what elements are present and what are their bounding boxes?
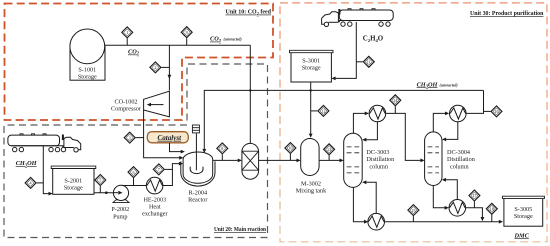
wire: truck to S-3001 xyxy=(336,22,357,78)
svg-text:Unit 30: Product purification: Unit 30: Product purification xyxy=(470,10,544,17)
svg-text:9: 9 xyxy=(186,30,188,35)
wire: truck to S-2001 xyxy=(43,146,48,194)
mixing tank M-3002 xyxy=(296,139,327,195)
unit 10 boundary box xyxy=(5,4,274,121)
diamond 3 xyxy=(124,132,135,143)
svg-text:16: 16 xyxy=(494,109,498,114)
node: junction of S-3001 drop with header xyxy=(310,89,312,91)
svg-text:Distillation: Distillation xyxy=(447,156,475,163)
wire: stub diamond 9 xyxy=(186,38,188,45)
diamond 10 xyxy=(285,143,296,154)
wire: stub diamond 2 xyxy=(161,66,169,68)
svg-text:exchanger: exchanger xyxy=(142,210,167,217)
svg-text:Catalyst: Catalyst xyxy=(157,134,182,142)
diamond 13 xyxy=(324,144,335,155)
diamond 17 xyxy=(469,190,480,201)
node: junction of riser with methanol header xyxy=(249,89,251,91)
wire: S-3001 to mixing tank xyxy=(310,82,312,134)
diamond 11 xyxy=(363,56,374,67)
svg-text:S-2001: S-2001 xyxy=(64,177,82,184)
svg-text:1: 1 xyxy=(126,30,128,35)
wire: S-2001 to pump xyxy=(94,192,121,194)
svg-text:3: 3 xyxy=(129,135,131,140)
svg-text:Storage: Storage xyxy=(514,213,533,220)
svg-text:15: 15 xyxy=(411,208,415,213)
compressor CO-1002 xyxy=(111,91,169,117)
svg-text:column: column xyxy=(369,163,388,170)
wire: DC-3004 distillate to methanol header xyxy=(466,90,483,113)
wire: reactor to separator xyxy=(213,159,238,161)
wire: catalyst to reactor xyxy=(170,143,181,152)
storage tank S-3001 xyxy=(290,50,334,82)
wire: DC-3003 reboiler return xyxy=(366,182,376,213)
diamond 2 xyxy=(150,62,161,73)
svg-text:Storage: Storage xyxy=(64,185,83,192)
wire: CO2 recycle riser from separator top xyxy=(249,45,251,143)
storage sphere S-1001 xyxy=(70,29,105,81)
diamond 4 xyxy=(25,177,36,188)
unit 30 boundary box xyxy=(280,3,547,242)
svg-text:Storage: Storage xyxy=(302,65,321,72)
unit 20 boundary box xyxy=(4,64,268,238)
svg-text:7: 7 xyxy=(158,167,160,172)
svg-text:Storage: Storage xyxy=(78,74,97,81)
wire: compressor discharge to reactor xyxy=(144,110,180,158)
diamond 16 xyxy=(491,106,502,117)
svg-text:18: 18 xyxy=(490,207,494,212)
svg-text:(unreacted): (unreacted) xyxy=(440,83,459,87)
wire: stub diamond 10 xyxy=(289,154,291,160)
wire: stub diamond 16 xyxy=(484,110,491,112)
diamond 1 xyxy=(122,27,133,38)
reboiler of DC-3004 xyxy=(449,200,466,217)
wire: stub diamond 7 xyxy=(165,168,173,170)
diamond 15 xyxy=(408,205,419,216)
condenser of DC-3004 xyxy=(450,105,467,122)
wire: DC-3004 reboiler return xyxy=(446,180,457,199)
wire: stub diamond 1 xyxy=(126,38,128,45)
svg-text:Reactor: Reactor xyxy=(188,196,207,203)
svg-text:HE-2003: HE-2003 xyxy=(143,196,166,203)
svg-text:Unit 10: CO2 feed: Unit 10: CO2 feed xyxy=(226,9,272,16)
truck methanol feed xyxy=(8,134,81,152)
node: junction dot on pump suction xyxy=(105,191,108,194)
wire: stub diamond 6 xyxy=(133,178,135,185)
svg-text:S-1001: S-1001 xyxy=(78,67,96,74)
svg-text:C2H4O: C2H4O xyxy=(363,36,384,43)
svg-text:2: 2 xyxy=(154,65,156,70)
wire: stub diamond 12 xyxy=(311,110,318,112)
wire: DC-3004 overhead to condenser xyxy=(433,113,445,131)
svg-text:6: 6 xyxy=(132,170,134,175)
wire: stub diamond 18 xyxy=(491,215,493,222)
wire: DC-3003 bottoms to reboiler xyxy=(353,187,364,221)
svg-text:Distillation: Distillation xyxy=(366,156,394,163)
reboiler of DC-3003 xyxy=(368,213,385,230)
wire: stub diamond 17 xyxy=(473,202,475,208)
svg-text:CH3OH: CH3OH xyxy=(16,160,38,167)
condenser of DC-3003 xyxy=(369,105,386,122)
wire: stub diamond 8 xyxy=(221,154,223,160)
svg-text:column: column xyxy=(450,163,469,170)
wire: compressor suction drop xyxy=(168,45,170,90)
separator vessel with X xyxy=(242,143,259,179)
storage tank S-3005 xyxy=(502,196,544,226)
wire: mixing tank to DC-3003 xyxy=(319,159,339,161)
wire: stub diamond 15 xyxy=(412,216,414,222)
svg-text:CO-1002: CO-1002 xyxy=(114,99,137,106)
svg-text:13: 13 xyxy=(327,147,331,152)
diamond 14 xyxy=(390,95,401,106)
heat exchanger HE-2003 xyxy=(142,177,167,217)
diamond 9 xyxy=(181,27,192,38)
wire: DC-3003 reflux return xyxy=(366,122,377,140)
svg-text:R-2004: R-2004 xyxy=(189,189,208,196)
wire: bottoms product line to S-3005 xyxy=(384,221,499,223)
svg-text:(unreacted): (unreacted) xyxy=(224,38,243,42)
svg-text:S-3001: S-3001 xyxy=(302,58,320,65)
distillation column DC-3004 xyxy=(425,132,475,186)
wire: stub diamond 14 xyxy=(394,106,396,113)
pump P-2002 xyxy=(111,185,129,220)
svg-text:Unit 20: Main reaction: Unit 20: Main reaction xyxy=(214,226,266,233)
wire: stub diamond 3 xyxy=(136,137,144,139)
wire: stub diamond 11 xyxy=(356,61,363,63)
svg-text:11: 11 xyxy=(367,60,371,65)
svg-text:12: 12 xyxy=(321,109,325,114)
wire: stub diamond 13 xyxy=(328,155,330,160)
svg-text:10: 10 xyxy=(288,146,292,151)
wire: HE-2003 to reactor xyxy=(162,164,179,186)
wire: separator to mixing tank xyxy=(259,159,297,161)
wire: stub diamond 5 xyxy=(99,186,101,193)
diamond 5 xyxy=(95,175,106,186)
wire: DC-3003 distillate to DC-3004 feed xyxy=(386,113,421,160)
svg-text:Pump: Pump xyxy=(113,213,127,220)
diamond 18 xyxy=(486,203,497,214)
svg-text:DC-3003: DC-3003 xyxy=(366,149,389,156)
wire: pump to HE-2003 xyxy=(122,185,147,187)
diamond 8 xyxy=(217,143,228,154)
svg-text:DC-3004: DC-3004 xyxy=(447,149,470,156)
wire: DC-3004 product drop to bottoms line xyxy=(466,208,483,217)
svg-text:Compressor: Compressor xyxy=(111,106,141,113)
distillation column DC-3003 xyxy=(344,133,395,187)
wire: DC-3004 bottoms to reboiler xyxy=(433,186,444,208)
svg-text:P-2002: P-2002 xyxy=(111,206,129,213)
wire: DC-3003 overhead to condenser xyxy=(353,113,364,133)
catalyst box xyxy=(147,132,188,143)
svg-text:M-3002: M-3002 xyxy=(301,180,321,187)
reactor R-2004 xyxy=(181,125,215,203)
svg-text:DMC: DMC xyxy=(514,232,530,239)
wire: DC-3004 reflux return xyxy=(446,122,458,140)
storage tank S-2001 xyxy=(51,166,96,194)
svg-text:8: 8 xyxy=(221,146,223,151)
diamond 12 xyxy=(318,105,329,116)
truck C2H4O feed xyxy=(322,9,394,27)
svg-text:S-3005: S-3005 xyxy=(514,206,532,213)
diamond 6 xyxy=(128,167,139,178)
wire: methanol recycle header xyxy=(204,90,483,148)
diamond 7 xyxy=(153,164,164,175)
svg-text:Mixing tank: Mixing tank xyxy=(296,187,327,194)
svg-text:CH3OH: CH3OH xyxy=(417,81,439,88)
wire: stub diamond 4 xyxy=(37,182,44,184)
svg-text:17: 17 xyxy=(472,193,476,198)
wire: main CO2 line from S-1001 to separator riser xyxy=(105,44,251,46)
svg-text:Heat: Heat xyxy=(149,203,161,210)
svg-text:5: 5 xyxy=(99,178,101,183)
